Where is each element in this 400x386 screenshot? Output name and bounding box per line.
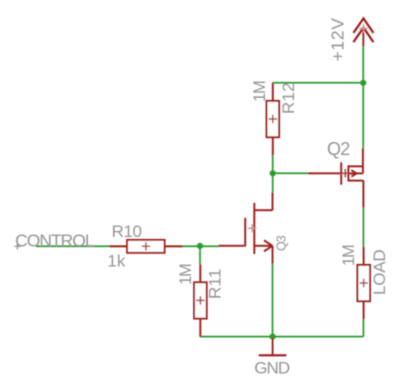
svg-text:R11: R11 [206, 268, 225, 299]
svg-text:CONTROL: CONTROL [15, 230, 95, 250]
svg-text:1M: 1M [251, 81, 269, 102]
svg-text:R12: R12 [279, 82, 298, 114]
svg-text:R10: R10 [112, 222, 142, 241]
svg-text:1M: 1M [177, 264, 195, 285]
svg-text:1M: 1M [340, 245, 358, 266]
svg-text:GND: GND [254, 359, 290, 378]
svg-text:LOAD: LOAD [370, 250, 389, 296]
svg-text:Q2: Q2 [327, 139, 350, 159]
svg-text:1k: 1k [107, 251, 125, 270]
svg-text:+12V: +12V [327, 17, 347, 61]
svg-text:Q3: Q3 [274, 235, 288, 251]
